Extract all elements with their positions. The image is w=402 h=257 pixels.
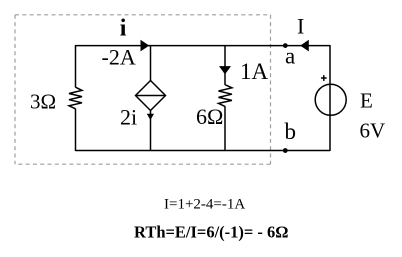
svg-text:a: a [285, 44, 295, 69]
node a terminal dot [283, 43, 288, 48]
dashed Thevenin boundary box right edge [270, 15, 272, 164]
wire right branch [329, 45, 331, 151]
svg-text:-2A: -2A [102, 44, 136, 69]
current arrow I (left-pointing) [300, 40, 309, 52]
svg-text:6Ω: 6Ω [196, 104, 223, 129]
wire left branch upper [75, 45, 77, 87]
wire dependent-source branch lower [150, 111, 152, 152]
dashed Thevenin boundary box bottom edge [15, 163, 271, 165]
dashed Thevenin boundary box top edge [15, 14, 271, 16]
resistor R2 6ohm zigzag [219, 85, 232, 107]
dependent current source U1 diamond [136, 81, 166, 111]
svg-text:RTh=E/I=6/(-1)= - 6Ω: RTh=E/I=6/(-1)= - 6Ω [134, 223, 289, 242]
svg-text:I=1+2-4=-1A: I=1+2-4=-1A [164, 197, 245, 213]
svg-text:b: b [285, 119, 297, 144]
svg-text:1A: 1A [240, 59, 269, 84]
wire dependent-source branch upper [150, 45, 152, 81]
dependent source direction arrow (down) [147, 114, 154, 120]
svg-text:E: E [360, 89, 373, 113]
wire 6ohm branch upper [224, 45, 226, 85]
wire left branch lower [75, 109, 77, 151]
wire 6ohm branch lower [224, 106, 226, 151]
resistor R1 3ohm zigzag [69, 87, 82, 109]
current arrow 1A (down) [219, 66, 231, 74]
wire top horizontal [76, 45, 331, 47]
svg-text:3Ω: 3Ω [30, 90, 56, 114]
svg-text:2i: 2i [120, 105, 137, 130]
dependent source center line [136, 95, 166, 97]
polarity plus sign [321, 77, 327, 79]
wire bottom horizontal [76, 150, 331, 152]
current arrow i (right-pointing) [141, 40, 150, 52]
voltage source E circle [315, 84, 346, 115]
svg-text:6V: 6V [360, 119, 386, 143]
svg-text:i: i [120, 16, 127, 42]
node b terminal dot [283, 148, 288, 153]
svg-text:I: I [297, 14, 304, 39]
dashed Thevenin boundary box left edge [14, 15, 16, 164]
